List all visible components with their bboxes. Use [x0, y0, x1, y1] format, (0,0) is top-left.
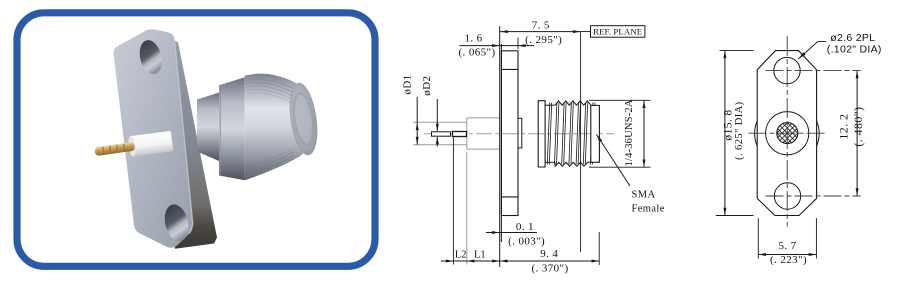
center pin segment 2: [453, 132, 467, 137]
leader: SMA Female: [597, 135, 631, 187]
3d connector: flange front-right edge highlight: [175, 40, 193, 234]
bottom mounting hole: [774, 183, 800, 209]
3d connector: mid ring section: [219, 77, 245, 180]
3d connector: main body cylinder: [245, 74, 311, 181]
thread crest zigzag top: [555, 101, 591, 106]
3d connector: gold pin: [94, 142, 135, 156]
svg-text:(. 065"): (. 065"): [458, 46, 495, 58]
horizontal centerline middle: [749, 132, 826, 134]
dimension 5.7 (.223&quot;): [757, 218, 759, 259]
body silhouette arcs beyond flange edges: [755, 121, 758, 146]
svg-text:12. 2: 12. 2: [837, 114, 851, 140]
svg-text:L2: L2: [455, 250, 467, 261]
thread crest zigzag bottom: [555, 162, 591, 166]
svg-text:(. 480"): (. 480"): [851, 107, 865, 147]
3d top mounting hole: [136, 38, 165, 77]
dimension 0.1 (.003&quot;): [486, 232, 537, 234]
svg-text:(. 003"): (. 003"): [508, 235, 545, 247]
end cap after threads: [591, 105, 600, 162]
dimension 7.5 (.295&quot;): [500, 31, 580, 33]
blue rounded border frame: [17, 13, 375, 266]
svg-text:9. 4: 9. 4: [540, 248, 558, 260]
3d connector: neck cylinder: [197, 93, 219, 162]
3d bottom mounting hole: [161, 202, 192, 243]
svg-text:(. 295"): (. 295"): [525, 34, 562, 46]
side view: horizontal centerline: [424, 133, 614, 135]
thread OD extension lines: [589, 99, 651, 101]
flange front face line A (0.1 boss face): [499, 26, 501, 267]
dimension 1/4-36UNS-2A: [643, 100, 645, 167]
flange body rect: [501, 51, 518, 216]
svg-text:øD2: øD2: [421, 76, 433, 96]
svg-text:0. 1: 0. 1: [516, 221, 534, 233]
3d connector: thread helix lines top: [245, 79, 293, 88]
svg-text:øD1: øD1: [402, 74, 414, 94]
connector body left block: [538, 101, 545, 167]
3d connector: end cap face: [286, 81, 322, 157]
svg-text:ø2.6 2PL: ø2.6 2PL: [830, 32, 875, 44]
svg-text:5. 7: 5. 7: [778, 240, 796, 252]
svg-text:REF. PLANE: REF. PLANE: [593, 27, 642, 37]
thread flank lines: [547, 103, 549, 165]
vertical centerline: [786, 36, 788, 227]
3d connector: flange front face: [114, 29, 193, 248]
svg-text:(. 625" DIA): (. 625" DIA): [734, 101, 745, 159]
svg-text:L1: L1: [474, 250, 486, 261]
leader ø2.6 2PL: [818, 41, 826, 43]
svg-text:1. 6: 1. 6: [464, 33, 482, 45]
svg-text:7. 5: 7. 5: [532, 19, 550, 31]
center pin segment 1: [432, 132, 451, 136]
REF. PLANE box: [591, 26, 645, 38]
rear boss: [518, 118, 522, 148]
svg-text:(. 223"): (. 223"): [770, 254, 807, 266]
flange chamfer edge lines: [501, 68, 518, 70]
top hole centerline + ext: [766, 70, 861, 72]
svg-text:1/4-36UNS-2A: 1/4-36UNS-2A: [624, 99, 635, 166]
svg-text:(. 370"): (. 370"): [531, 263, 568, 275]
dielectric circle: [766, 112, 809, 155]
center pin circle with crosshatch: [751, 117, 825, 149]
dimension line L2 L1 9.4: [441, 260, 599, 262]
svg-text:ø15. 8: ø15. 8: [723, 109, 735, 140]
dimension 12.2 (.480&quot;): [856, 71, 858, 196]
3d connector: flange side face: [145, 31, 217, 249]
top mounting hole: [774, 57, 800, 83]
svg-text:Female: Female: [632, 204, 665, 215]
REF. PLANE extension line: [580, 32, 582, 252]
dimension ø15.8 (.625&quot; DIA): [720, 50, 754, 52]
dimension 1.6 (.065&quot;): [460, 45, 535, 47]
svg-text:(.102" DIA): (.102" DIA): [827, 44, 882, 56]
3d connector: thread helix lines bottom: [246, 159, 295, 177]
3d connector: white insulator: [127, 131, 173, 157]
front view: flange octagon outline: [757, 51, 816, 216]
flange front face line B: [500, 44, 502, 242]
bottom hole centerline + ext: [766, 195, 861, 197]
dielectric insulator outline (gray): [413, 121, 467, 123]
svg-text:SMA: SMA: [632, 190, 656, 201]
bottom extension lines: [452, 138, 454, 265]
